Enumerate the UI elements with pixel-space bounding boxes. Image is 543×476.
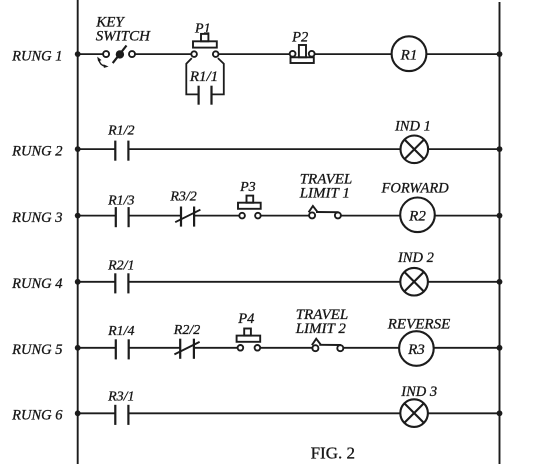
svg-text:RUNG 1: RUNG 1 <box>11 48 62 64</box>
svg-text:R2/2: R2/2 <box>173 323 200 338</box>
svg-text:LIMIT 2: LIMIT 2 <box>295 321 347 337</box>
svg-text:R3: R3 <box>407 342 425 358</box>
svg-text:R2/1: R2/1 <box>107 259 134 274</box>
svg-text:RUNG 2: RUNG 2 <box>11 143 62 159</box>
svg-text:R1: R1 <box>400 47 418 63</box>
svg-text:R1/3: R1/3 <box>107 194 134 209</box>
svg-text:P4: P4 <box>237 311 254 327</box>
svg-text:SWITCH: SWITCH <box>96 29 151 45</box>
svg-text:RUNG 3: RUNG 3 <box>11 210 62 226</box>
svg-text:IND 2: IND 2 <box>397 250 434 266</box>
svg-text:LIMIT 1: LIMIT 1 <box>299 186 350 202</box>
svg-text:IND 1: IND 1 <box>394 119 431 135</box>
svg-text:P1: P1 <box>194 22 211 37</box>
svg-text:FORWARD: FORWARD <box>381 181 450 197</box>
svg-text:R3/1: R3/1 <box>107 389 134 404</box>
svg-text:RUNG 5: RUNG 5 <box>11 342 62 358</box>
svg-text:FIG. 2: FIG. 2 <box>311 443 355 462</box>
svg-text:R1/1: R1/1 <box>189 69 218 85</box>
svg-text:REVERSE: REVERSE <box>387 317 450 333</box>
svg-text:P3: P3 <box>239 180 256 195</box>
svg-text:RUNG 6: RUNG 6 <box>11 408 63 424</box>
svg-text:RUNG 4: RUNG 4 <box>11 276 62 292</box>
svg-text:IND 3: IND 3 <box>400 384 437 400</box>
svg-text:P2: P2 <box>291 30 308 46</box>
svg-text:R2: R2 <box>408 209 426 225</box>
svg-text:R1/2: R1/2 <box>107 124 134 139</box>
svg-text:R3/2: R3/2 <box>169 190 196 205</box>
svg-text:R1/4: R1/4 <box>107 324 134 339</box>
